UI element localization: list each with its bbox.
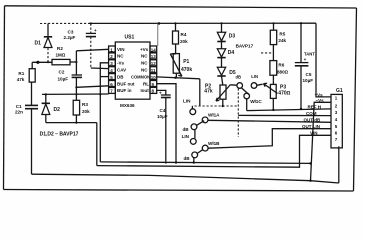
svg-text:+: + [94, 28, 97, 33]
svg-text:Wł1C: Wł1C [250, 99, 262, 104]
svg-text:12: 12 [151, 61, 157, 66]
svg-text:NC: NC [141, 61, 148, 66]
node C2 / vertical [75, 51, 77, 75]
pin9 line down to rail [157, 84, 176, 162]
common rail (upper) [100, 162, 310, 164]
switch WL1A [190, 106, 220, 130]
svg-text:1MΩ: 1MΩ [56, 53, 66, 58]
capacitor C4 [157, 90, 171, 161]
svg-text:BUF out: BUF out [117, 81, 135, 86]
svg-text:13: 13 [151, 54, 157, 59]
svg-text:+Vs: +Vs [140, 47, 149, 52]
svg-text:TANT: TANT [304, 51, 315, 56]
svg-text:R2: R2 [57, 46, 63, 51]
top +V rail [40, 22, 89, 24]
potentiometer P3 [264, 80, 291, 111]
svg-text:DB: DB [117, 74, 124, 79]
svg-text:NC: NC [117, 54, 124, 59]
pin3 / -Vs vertical [100, 63, 108, 162]
svg-text:2.2µF: 2.2µF [64, 35, 76, 40]
REF H line [247, 109, 331, 111]
svg-text:LIN: LIN [251, 74, 258, 79]
svg-text:OUT LIN: OUT LIN [302, 124, 320, 129]
IC US1 MX636 [115, 35, 150, 109]
svg-text:D3: D3 [229, 34, 236, 40]
input lower node wire [46, 122, 97, 124]
resistor R3 [73, 100, 90, 122]
wire input node to R2 [32, 61, 52, 63]
svg-text:20k: 20k [180, 39, 188, 44]
svg-text:VIN: VIN [117, 47, 125, 52]
dash spur [261, 52, 273, 54]
VIN rail (lower) [97, 135, 331, 167]
svg-text:10: 10 [151, 75, 157, 80]
svg-text:MX636: MX636 [120, 103, 135, 108]
svg-text:C4: C4 [160, 108, 166, 113]
svg-text:D1: D1 [35, 41, 42, 47]
svg-text:24k: 24k [278, 38, 286, 43]
svg-text:20k: 20k [82, 109, 90, 114]
svg-text:LIN: LIN [183, 98, 191, 103]
pin10 COMMON line to P2 [157, 77, 200, 79]
BUF line [76, 86, 108, 88]
svg-text:47k: 47k [204, 89, 213, 95]
svg-text:10µF: 10µF [58, 77, 69, 82]
wire to pin1 [76, 49, 108, 51]
svg-text:+: + [304, 57, 307, 62]
capacitor C1 [15, 82, 38, 174]
svg-text:D4: D4 [228, 50, 235, 56]
resistor R6 [270, 61, 289, 81]
IC pin labels [117, 47, 150, 93]
wire LIN contact to P3 [257, 84, 263, 85]
svg-text:P1: P1 [183, 59, 189, 65]
svg-text:R1: R1 [18, 71, 24, 76]
resistor R5 [270, 23, 286, 44]
out dB wire [208, 120, 331, 122]
diode D3 [217, 23, 235, 41]
G1 pin labels [302, 92, 324, 135]
connector G1 [331, 88, 343, 148]
left pin boxes [109, 46, 116, 93]
-Vs node line [42, 93, 109, 95]
wiper wire to WL1C [231, 84, 237, 86]
switch WL1C [236, 74, 263, 137]
svg-text:Wł1A: Wł1A [208, 112, 220, 117]
wire R2 to C2 node [70, 61, 76, 63]
svg-text:COMMON: COMMON [131, 74, 150, 79]
svg-text:BUF in: BUF in [117, 88, 132, 93]
svg-text:11: 11 [151, 68, 156, 73]
diode D5 [217, 58, 236, 85]
svg-text:14: 14 [151, 47, 157, 52]
svg-text:C5: C5 [306, 72, 312, 77]
bottom -V rail [32, 174, 339, 183]
pin14 supply stub [157, 24, 159, 46]
svg-text:BAVP17: BAVP17 [236, 43, 254, 48]
svg-text:CAV: CAV [117, 68, 126, 73]
svg-text:dB: dB [183, 127, 190, 132]
svg-text:R3: R3 [82, 102, 88, 107]
resistor R1 [17, 62, 36, 82]
svg-text:dB: dB [184, 156, 191, 161]
svg-text:10µF: 10µF [303, 78, 314, 83]
svg-text:D1,D2 – BAVP17: D1,D2 – BAVP17 [40, 131, 79, 137]
svg-text:LIN: LIN [182, 134, 190, 139]
svg-text:Wł1B: Wł1B [208, 141, 220, 146]
svg-text:22n: 22n [15, 109, 23, 114]
svg-text:D2: D2 [54, 107, 61, 113]
resistor R2 [52, 46, 70, 65]
svg-text:470k: 470k [181, 67, 192, 73]
border frame [4, 6, 357, 191]
svg-text:-Vs: -Vs [117, 61, 125, 66]
svg-text:R6: R6 [278, 63, 284, 68]
resistor R4 [173, 23, 189, 44]
+Vs drop [316, 23, 331, 97]
svg-text:880Ω: 880Ω [277, 70, 289, 75]
svg-text:US1: US1 [125, 35, 135, 41]
svg-text:R5: R5 [279, 31, 285, 36]
potentiometer P2 [204, 84, 230, 107]
-Vs wire and drop [311, 102, 332, 180]
svg-text:470Ω: 470Ω [278, 91, 290, 97]
diode D1 [35, 24, 53, 63]
svg-text:NC: NC [141, 68, 148, 73]
capacitor C2 [58, 70, 83, 82]
diode D4 [217, 42, 234, 58]
svg-text:−Vs: −Vs [316, 98, 325, 103]
capacitor C5 [295, 22, 315, 110]
svg-text:G1: G1 [336, 88, 343, 94]
svg-text:+Vs: +Vs [315, 92, 324, 97]
svg-text:RL: RL [143, 81, 149, 86]
svg-text:COM: COM [306, 111, 317, 116]
svg-text:C2: C2 [59, 70, 65, 75]
potentiometer P1 [170, 44, 192, 79]
svg-text:Iout: Iout [141, 88, 150, 93]
switch WL1B [190, 139, 220, 158]
svg-text:R4: R4 [181, 32, 187, 37]
svg-text:dB: dB [236, 75, 242, 80]
link A-B [194, 130, 196, 139]
node rail junctions [90, 22, 92, 24]
svg-text:10µF: 10µF [157, 114, 168, 119]
svg-text:VIN: VIN [310, 131, 318, 136]
svg-text:REF H: REF H [308, 104, 322, 109]
svg-text:NC: NC [141, 54, 148, 59]
out LIN wire [208, 129, 331, 149]
svg-text:C3: C3 [68, 29, 74, 34]
COM line [238, 114, 331, 116]
svg-text:OUT dB: OUT dB [304, 118, 321, 123]
right pin boxes [150, 46, 157, 93]
svg-text:47k: 47k [17, 77, 25, 82]
diode D2 [42, 93, 61, 122]
capacitor C3 [64, 24, 109, 69]
